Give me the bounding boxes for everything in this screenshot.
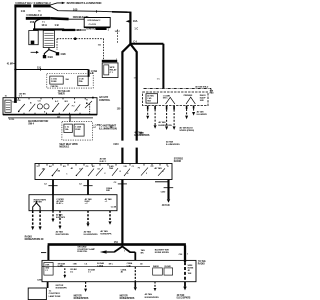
svg-text:F 2: F 2 [72,106,75,108]
wiper relay K1 label bar [102,60,117,62]
wire fork to instrument illumination [50,3,62,5]
svg-text:1: 1 [187,254,189,256]
svg-text:A2: A2 [49,165,52,168]
svg-text:2: 2 [104,173,105,175]
svg-text:+ C: + C [85,203,89,205]
svg-text:ILLUM/SPKRS: ILLUM/SPKRS [84,234,98,236]
svg-text:ELEC/SPKRS: ELEC/SPKRS [56,234,70,236]
wire x185 below with arrow [184,282,186,287]
svg-text:1: 1 [66,173,67,175]
svg-text:151: 151 [37,66,42,70]
wire W2 heavy extension [50,17,68,20]
svg-text:RADIO: RADIO [25,236,32,239]
U2 pin drop pair 3b with arrow [193,106,195,109]
U3 drop x88 with arrow [87,211,89,224]
svg-text:RAD: RAD [210,92,215,95]
svg-text:C2: C2 [79,169,81,171]
wire bus right corner drop [184,245,186,262]
svg-text:105: 105 [73,7,78,11]
wire drop into ground strip [134,252,136,260]
wire drop P2 pin x53 [52,180,54,195]
P1 heavy bottom edge [3,114,97,116]
wire fork to ground terminals [44,50,49,56]
svg-text:154: 154 [114,241,119,244]
wire W2 second feed bar [26,17,50,20]
svg-text:4D: 4D [71,167,74,170]
junction tick on 105 [96,10,98,12]
U3 drop x53 below with arrow [52,211,54,219]
svg-text:PREMIUM: PREMIUM [184,95,193,97]
svg-text:4 BK: 4 BK [60,53,66,56]
dashed accessory feed inside fuse panel [116,30,118,45]
svg-text:ELEC/SPK: ELEC/SPK [56,217,66,219]
svg-text:ILLUM/SPKRS: ILLUM/SPKRS [134,135,150,137]
svg-text:TO THE A/C: TO THE A/C [58,90,71,93]
svg-text:SPKRS (PREM): SPKRS (PREM) [179,130,194,132]
P1 lamp L1 [37,104,42,109]
svg-text:RADIO: RADIO [198,262,205,265]
svg-text:1 B: 1 B [54,23,58,27]
shield bus dash-dot [144,87,212,89]
wire heavy drop right x163 [162,44,164,89]
svg-text:4D TAN: 4D TAN [197,110,204,113]
svg-text:10A: 10A [65,128,69,131]
svg-text:C D: C D [38,100,42,102]
svg-text:105: 105 [117,108,121,110]
dashed wire drop right to relay [103,39,105,60]
tick left of riser [110,126,113,128]
svg-text:C2: C2 [114,182,117,184]
tick on 151 [39,68,41,71]
svg-text:61: 61 [38,10,41,12]
dashed sense wire horizontal [57,38,104,40]
wire main riser continues to ground bus [121,180,123,246]
svg-text:C28: C28 [179,254,183,256]
U3 internal fork [33,201,40,211]
wire 151 horizontal [15,69,88,71]
svg-text:ILLUM/SPK: ILLUM/SPK [197,114,208,116]
U3 ground drops with arrows [32,211,34,227]
ignition switch connector strip P2 box [35,164,172,180]
P1 dashed pin [89,104,91,114]
svg-text:4D TAN: 4D TAN [134,132,142,135]
fuse block F1 dashed box [47,74,93,89]
svg-text:C 1: C 1 [88,272,91,274]
ground strip P3 box [42,260,196,281]
svg-text:10 A: 10 A [41,23,47,27]
svg-text:2 BK: 2 BK [45,265,50,267]
wire W2 thin extension to ignition switch [68,18,84,20]
ground terminal G2 [56,52,59,55]
U2 inner connector sub-box [146,94,158,103]
wire drop P2 pin x88 [87,180,89,195]
svg-text:C280: C280 [161,192,167,194]
connector tick C202 [83,185,92,187]
junction fan at ground bus [114,246,123,252]
U3 drop x110 with arrow [109,211,111,222]
arrow feed into fork [31,51,36,53]
dashed wire drop left [56,39,58,50]
svg-text:CHOKE: CHOKE [164,266,171,268]
svg-text:ILLUMINATION: ILLUMINATION [99,127,117,131]
svg-text:C2: C2 [79,183,82,185]
U2 switch contact 1 inverted V [166,97,175,104]
svg-text:G: G [162,171,164,173]
P1 inner resistor box [5,100,11,112]
junction dot on dashed wire [74,37,77,40]
svg-text:NOISE/SPKRS 4D: NOISE/SPKRS 4D [25,238,44,241]
svg-text:B2: B2 [92,166,94,168]
svg-text:5 C: 5 C [37,166,41,168]
junction dot on riser at 151 [14,68,16,70]
wire bottom left drop [47,282,49,288]
wire branch from W2 down to fuse row [35,19,40,28]
svg-text:105 C: 105 C [115,31,121,33]
svg-text:41 MF: 41 MF [7,63,14,66]
svg-text:NOISE/SPKRS: NOISE/SPKRS [145,297,160,299]
svg-text:ELEC/SPKRS: ELEC/SPKRS [177,297,191,299]
wire W1 hot feed bar left segment [14,4,50,7]
ground module box bottom left [28,288,46,300]
svg-text:C 4D: C 4D [127,264,132,267]
svg-text:4D TAN: 4D TAN [154,167,162,170]
svg-text:C2: C2 [44,183,47,185]
svg-text:ELEC +: ELEC + [56,203,64,205]
svg-text:RADIO: RADIO [153,265,159,268]
wire heavy drop into fuse block [88,70,90,77]
svg-text:A C: A C [55,100,59,103]
svg-text:15 150: 15 150 [9,119,14,121]
A/C heater control strip P1 box [3,98,97,115]
fuse F1a [50,76,63,84]
svg-text:E: E [44,111,46,113]
U2 switch contact 2 inverted V [186,97,195,104]
svg-text:C1: C1 [132,166,134,168]
svg-text:CONTROL: CONTROL [99,100,111,102]
wire stub bar mid [62,29,75,31]
tick label left of corner [41,252,46,254]
svg-text:1 BK: 1 BK [73,263,78,265]
svg-text:E: E [74,102,76,104]
svg-text:OFF RUN ACC: OFF RUN ACC [87,19,101,22]
P3 drop x135 dashed inside and arrow below [134,267,136,282]
svg-text:SH C: SH C [109,263,114,265]
terminal pin black square in CN1 [31,41,35,45]
svg-text:5: 5 [146,173,147,175]
svg-text:FUSE PNL: FUSE PNL [77,251,88,253]
svg-text:105: 105 [98,44,101,46]
svg-text:C 280A: C 280A [97,264,104,267]
svg-text:TAN: TAN [188,272,192,275]
svg-text:4D TAN: 4D TAN [145,293,153,296]
svg-text:C210: C210 [113,144,119,146]
svg-text:1: 1 [108,29,110,31]
svg-text:0 ORG/BLK H: 0 ORG/BLK H [26,14,42,17]
svg-text:FUSE: FUSE [51,81,57,83]
svg-text:NOISE SPKRS: NOISE SPKRS [155,252,170,254]
svg-text:C3: C3 [86,166,89,168]
U2 pin drop pair 1a with arrow [147,106,149,110]
P1 lamp L2 [44,104,49,109]
svg-text:TAN: TAN [109,167,114,170]
svg-text:C 4: C 4 [84,262,88,265]
relay K1 box [102,63,118,78]
wire drop P2 right pin with arrow [167,180,169,200]
svg-text:SW C: SW C [163,98,168,100]
svg-text:C LOCK: C LOCK [89,24,97,26]
wire x53 through U3 [52,195,54,211]
svg-text:GND: GND [45,267,50,269]
wire from R1 bottom [48,48,50,50]
svg-text:F3: F3 [138,168,140,170]
wire link y181.8 [155,181,169,183]
P3 left inner rect [44,263,53,276]
svg-text:6 BK: 6 BK [48,56,54,59]
svg-text:PLAYER: PLAYER [34,201,43,204]
svg-text:B D: B D [65,101,69,103]
svg-text:H: H [86,99,88,101]
svg-text:0 GRN/LT BLU: 0 GRN/LT BLU [34,1,51,5]
fuse block F2 dashed box [62,122,92,140]
svg-text:4D TAN ELEC/: 4D TAN ELEC/ [179,127,193,130]
svg-text:MODULE: MODULE [59,146,69,148]
svg-text:4D: 4D [140,262,143,265]
svg-text:156: 156 [17,100,21,102]
P1 switch contacts [18,104,24,111]
wire main left vertical riser [14,5,16,98]
P1 entry blob [14,98,17,103]
svg-text:4D TAN SHLD: 4D TAN SHLD [195,85,209,88]
P3 inner line [42,266,150,268]
svg-text:D: D [167,166,169,168]
arrow to instrument illumination [62,2,66,4]
svg-text:1 C: 1 C [134,27,138,30]
P2 pin ticks top [39,164,167,166]
svg-text:4D TAN: 4D TAN [177,294,185,297]
svg-text:LAMP FUSE: LAMP FUSE [49,295,61,298]
svg-text:ELEC C: ELEC C [100,161,107,163]
svg-text:C2 48: C2 48 [111,206,117,209]
svg-text:D1: D1 [98,169,100,171]
wire riser left lower segment [121,148,123,164]
svg-text:PNL: PNL [79,81,84,83]
P1 top edge dot [92,97,94,99]
radio U3 box [29,195,117,211]
svg-text:B1: B1 [63,166,66,168]
svg-text:C 1: C 1 [45,270,48,272]
wire heavy run right at y44 [130,43,164,45]
svg-text:SEAT BELT WRN: SEAT BELT WRN [59,143,78,146]
svg-text:1: 1 [124,251,126,253]
svg-text:RADIO: RADIO [174,160,181,163]
svg-text:C 1: C 1 [110,72,114,74]
P1 second lower line [8,117,93,119]
U2 pin drop pair 3a with arrow [186,106,188,109]
wire riser right lower segment [136,148,138,164]
svg-text:LP: LP [93,127,96,129]
resistor ladder R1 [43,31,54,48]
ground terminal G1 [43,55,46,58]
P3 drop x155 with arrow [154,282,156,288]
svg-text:NOISE/SPK: NOISE/SPK [56,287,68,289]
switch S1 ignition switch box [84,18,110,28]
wire 105 run to fuse panel [50,7,113,12]
U3 drop x60 with arrow [59,211,61,226]
P3 dashed heavy wire x185 [184,262,186,282]
svg-text:4D TAN: 4D TAN [158,121,166,124]
svg-text:BK: BK [141,252,144,254]
U2 pin drop pair 2 with arrows [167,106,175,110]
P3 dashed drop with arrow x65 [64,268,66,275]
svg-text:B4: B4 [58,170,61,173]
svg-text:0 ORG/LT BLU: 0 ORG/LT BLU [15,1,32,5]
svg-text:4D TAN: 4D TAN [166,141,174,144]
P3 right inner boxes [153,268,163,275]
fuse F1b [78,76,88,86]
wire drop strip to fuse block F2 [69,115,71,122]
svg-text:10A: 10A [133,19,138,23]
combination switch U2 box [143,92,208,106]
wire heavy stub under S1 [96,28,107,30]
svg-text:4D TAN: 4D TAN [162,204,170,207]
connector break tick C210 [139,132,143,134]
svg-text:ILLUM/SPKRS: ILLUM/SPKRS [166,144,180,146]
wire bus over component row [33,28,64,30]
svg-text:FSE PNL: FSE PNL [51,86,60,88]
svg-text:4: 4 [127,172,129,175]
svg-text:30A: 30A [65,78,69,81]
svg-text:FUSE: FUSE [75,129,81,131]
svg-text:TIMER: TIMER [58,94,65,96]
connector tick C280 [164,187,174,189]
connector tick C201 [48,185,57,187]
svg-text:SND: SND [200,100,205,102]
wire link to ignition switch box [75,29,86,31]
connector CN1 pigtail box [29,31,38,45]
svg-text:NOISE/SPK: NOISE/SPK [100,234,112,236]
U2 pin drop pair 1b with arrow [154,106,156,110]
wire split to twin risers [122,44,130,141]
P3 drop x85 with arrow [85,282,87,289]
wire bus left corner drop [47,245,49,260]
svg-text:3 B: 3 B [123,166,127,168]
svg-text:WIR: WIR [106,190,110,192]
svg-text:C 280: C 280 [58,266,64,268]
svg-text:4D: 4D [188,269,191,272]
svg-text:+ 1: + 1 [105,201,109,203]
arrow fuse feed left [126,20,130,23]
svg-text:E: E [120,171,122,173]
connector tick C203 [118,183,127,185]
svg-text:3: 3 [76,110,77,112]
svg-text:1 C: 1 C [157,78,161,80]
svg-text:A/C HTR: A/C HTR [99,96,108,99]
svg-text:B: B [30,102,32,104]
svg-text:141: 141 [21,9,26,13]
ground bus heavy bar [48,243,186,246]
svg-text:INSTRUMENT ILLUMINATION: INSTRUMENT ILLUMINATION [67,1,102,5]
wire heavy drop at fuse panel corner [129,12,131,45]
svg-text:SW 4: SW 4 [28,123,34,126]
